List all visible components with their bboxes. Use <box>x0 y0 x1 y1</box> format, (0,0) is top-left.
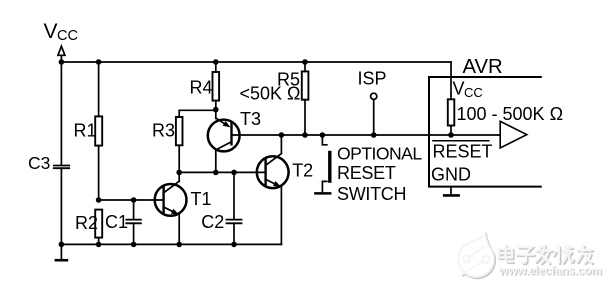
junction bottom-C1 <box>131 242 137 248</box>
resistor R1 <box>95 116 102 145</box>
svg-text:R3: R3 <box>152 121 175 141</box>
char zi <box>520 248 533 255</box>
svg-text:AVR: AVR <box>463 56 503 78</box>
wire C2 top lead <box>233 172 235 218</box>
junction bottom-R2 <box>96 242 102 248</box>
svg-text:100 - 500K Ω: 100 - 500K Ω <box>457 104 564 124</box>
capacitor C2 <box>227 220 242 224</box>
wire RESET net <box>233 134 501 136</box>
junction bottom-T1 <box>176 242 182 248</box>
junction rail-R4 <box>213 59 219 65</box>
char you <box>579 250 593 253</box>
char you <box>578 249 592 251</box>
wire T2 emitter <box>280 187 282 244</box>
node T3 emitter junction <box>213 107 219 113</box>
wire left rail lower <box>60 169 62 244</box>
switch S1 bottom contact <box>322 181 326 192</box>
wire R5 top lead <box>304 62 306 71</box>
junction rail-R1 <box>96 59 102 65</box>
ground left <box>56 244 67 260</box>
junction rail-R5 <box>302 59 308 65</box>
junction reset-R5 <box>302 132 308 138</box>
junction reset-T2 <box>279 132 285 138</box>
svg-text:C2: C2 <box>201 212 224 232</box>
junction bottom-left <box>59 242 65 248</box>
junction reset-ISP <box>371 132 377 138</box>
junction mid-T3 <box>213 170 219 176</box>
watermark url text <box>498 264 603 279</box>
capacitor C1 <box>126 220 141 224</box>
svg-text:www.elecfans.com: www.elecfans.com <box>498 264 601 278</box>
junction base-C1 <box>131 197 137 203</box>
junction base-R1 <box>96 197 102 203</box>
net VCC label <box>44 20 78 44</box>
ground AVR <box>444 187 458 196</box>
wire T1 collector <box>178 172 180 181</box>
buffer U1 <box>500 121 527 148</box>
svg-text:T1: T1 <box>191 189 212 209</box>
watermark logo <box>460 235 495 278</box>
svg-text:CC: CC <box>57 28 78 44</box>
junction mid-C2 <box>231 170 237 176</box>
wire R4 bottom lead <box>215 101 217 110</box>
wire Vcc into AVR <box>450 62 452 99</box>
switch S1 actuator bar <box>328 151 331 183</box>
char dian <box>507 247 514 263</box>
transistor T2 <box>257 154 289 189</box>
AVR box <box>429 77 541 187</box>
svg-text:C1: C1 <box>105 212 128 232</box>
svg-text:T3: T3 <box>240 109 261 129</box>
terminal ISP <box>371 93 377 99</box>
svg-text:OPTIONAL: OPTIONAL <box>337 144 422 164</box>
label Vcc pin <box>453 79 483 101</box>
svg-text:SWITCH: SWITCH <box>337 184 406 204</box>
char shao <box>559 248 562 264</box>
resistor R3 <box>176 117 183 145</box>
wire R3 top lead <box>179 110 216 117</box>
wire C1 bottom lead <box>133 224 135 244</box>
char zi <box>519 247 532 254</box>
junction mid-T1 <box>176 170 182 176</box>
svg-text:ISP: ISP <box>358 69 387 89</box>
junction rail-left <box>59 59 65 65</box>
junction bottom-C2 <box>231 242 237 248</box>
svg-text:R2: R2 <box>75 213 98 233</box>
wire C1 top lead <box>133 200 135 219</box>
capacitor C3 <box>54 166 69 169</box>
transistor T3 <box>208 110 240 152</box>
svg-text:V: V <box>44 20 58 43</box>
svg-text:R4: R4 <box>190 78 213 98</box>
svg-text:RESET: RESET <box>337 163 396 183</box>
wire R1 bottom lead <box>98 146 100 200</box>
resistor R5 <box>302 71 309 99</box>
wire C2 bottom lead <box>233 224 235 244</box>
svg-text:<50K Ω: <50K Ω <box>240 84 301 104</box>
wire bottom rail <box>61 243 281 245</box>
watermark CJK text (drawn strokes) <box>500 247 593 265</box>
char dian <box>506 246 513 262</box>
wire pull-up bottom lead <box>450 126 452 136</box>
wire R3 bottom lead <box>178 145 180 172</box>
wire T2 collector <box>280 135 282 154</box>
wire T1 emitter <box>178 215 180 245</box>
char shao <box>558 247 560 263</box>
wire collector rail (T1-T2 base) <box>179 171 265 173</box>
wire T3 collector <box>215 150 217 173</box>
transistor T1 <box>155 181 187 216</box>
wire left rail upper <box>60 62 62 165</box>
char fa <box>541 247 545 250</box>
svg-text:R1: R1 <box>74 121 97 141</box>
svg-text:V: V <box>453 79 465 99</box>
resistor pull-up <box>448 99 455 125</box>
wire ISP lead <box>373 100 375 135</box>
junction reset-pullup <box>448 132 454 138</box>
wire R2 bottom lead <box>98 238 100 245</box>
svg-text:T2: T2 <box>292 161 313 181</box>
switch S1 top contact <box>322 135 326 145</box>
Vcc arrow <box>58 46 65 61</box>
svg-text:RESET: RESET <box>433 142 493 162</box>
svg-text:C3: C3 <box>28 153 50 173</box>
svg-text:GND: GND <box>431 165 471 185</box>
resistor R2 <box>95 210 102 238</box>
wire R4 top lead <box>215 62 217 72</box>
wire T1 base <box>99 199 163 201</box>
ground switch <box>315 192 330 195</box>
svg-text:CC: CC <box>464 85 483 100</box>
resistor R4 <box>213 72 220 101</box>
wire Vcc top rail <box>61 61 451 63</box>
wire R5 bottom lead <box>304 100 306 135</box>
label RESET pin overline <box>433 140 489 142</box>
junction reset-switch <box>320 132 326 138</box>
char fa <box>540 245 544 248</box>
wire R1 top lead <box>98 62 100 116</box>
